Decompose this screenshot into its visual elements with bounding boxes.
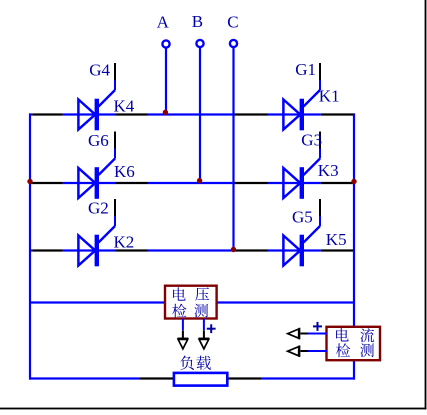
node junction A xyxy=(163,110,168,115)
resistor load xyxy=(174,373,227,386)
VD probe arrow right xyxy=(199,339,210,349)
wire: top row (K4/K1) horizontal xyxy=(29,113,355,115)
wire: VD probe lead left xyxy=(182,319,184,339)
current detection box 电流检测 xyxy=(327,327,381,360)
svg-text:G6: G6 xyxy=(88,131,109,150)
thyristor Q2 xyxy=(78,199,115,266)
voltage detection box 电压检测 xyxy=(165,286,217,319)
frame bottom edge xyxy=(0,408,426,410)
svg-text:K2: K2 xyxy=(114,232,135,251)
wire: phase B lead xyxy=(199,47,201,184)
VD probe arrow left xyxy=(178,339,189,349)
thyristor Q5 xyxy=(283,199,320,266)
terminal A circle xyxy=(162,40,169,47)
svg-text:K4: K4 xyxy=(114,97,135,116)
CD probe arrow lower xyxy=(288,345,300,357)
terminal B circle xyxy=(196,40,203,47)
node junction B xyxy=(197,178,202,183)
svg-text:G3: G3 xyxy=(301,131,322,150)
frame right edge xyxy=(425,0,427,409)
svg-text:G2: G2 xyxy=(88,199,109,218)
svg-text:K3: K3 xyxy=(318,161,339,180)
terminal C circle xyxy=(230,40,237,47)
wire: voltage-detect row horizontal xyxy=(29,301,355,303)
wire: left bus vertical xyxy=(29,113,31,379)
wire: CD probe lead upper xyxy=(301,333,328,335)
svg-text:G1: G1 xyxy=(295,60,316,79)
wire: bottom row (K2/K5) horizontal xyxy=(29,249,355,251)
wire: phase A lead xyxy=(165,48,167,116)
plus sign at CD probe xyxy=(313,322,322,331)
wire: middle row (K6/K3) horizontal xyxy=(29,182,355,184)
thyristor Q1 xyxy=(283,63,320,130)
thyristor Q6 xyxy=(78,132,115,199)
svg-text:K5: K5 xyxy=(326,230,347,249)
svg-text:A: A xyxy=(157,13,170,32)
CD probe arrow upper xyxy=(288,328,300,340)
node junction C xyxy=(231,247,236,252)
thyristor Q3 xyxy=(283,132,320,199)
svg-text:K6: K6 xyxy=(114,162,135,181)
node junction left-bus xyxy=(27,179,32,184)
plus sign at VD probe xyxy=(207,324,216,333)
svg-text:G5: G5 xyxy=(292,208,313,227)
wire: VD probe lead right xyxy=(203,319,205,339)
thyristor Q4 xyxy=(78,63,115,130)
node junction right-bus xyxy=(351,179,356,184)
wire: right bus vertical xyxy=(353,113,355,379)
svg-text:B: B xyxy=(192,12,203,31)
wire: CD probe lead lower xyxy=(301,350,328,352)
svg-text:K1: K1 xyxy=(319,87,340,106)
label 负载 (load) xyxy=(180,356,211,370)
svg-text:G4: G4 xyxy=(89,61,110,80)
wire: phase C lead xyxy=(232,47,234,251)
svg-text:C: C xyxy=(227,13,238,32)
wire: load row horizontal xyxy=(29,377,355,379)
